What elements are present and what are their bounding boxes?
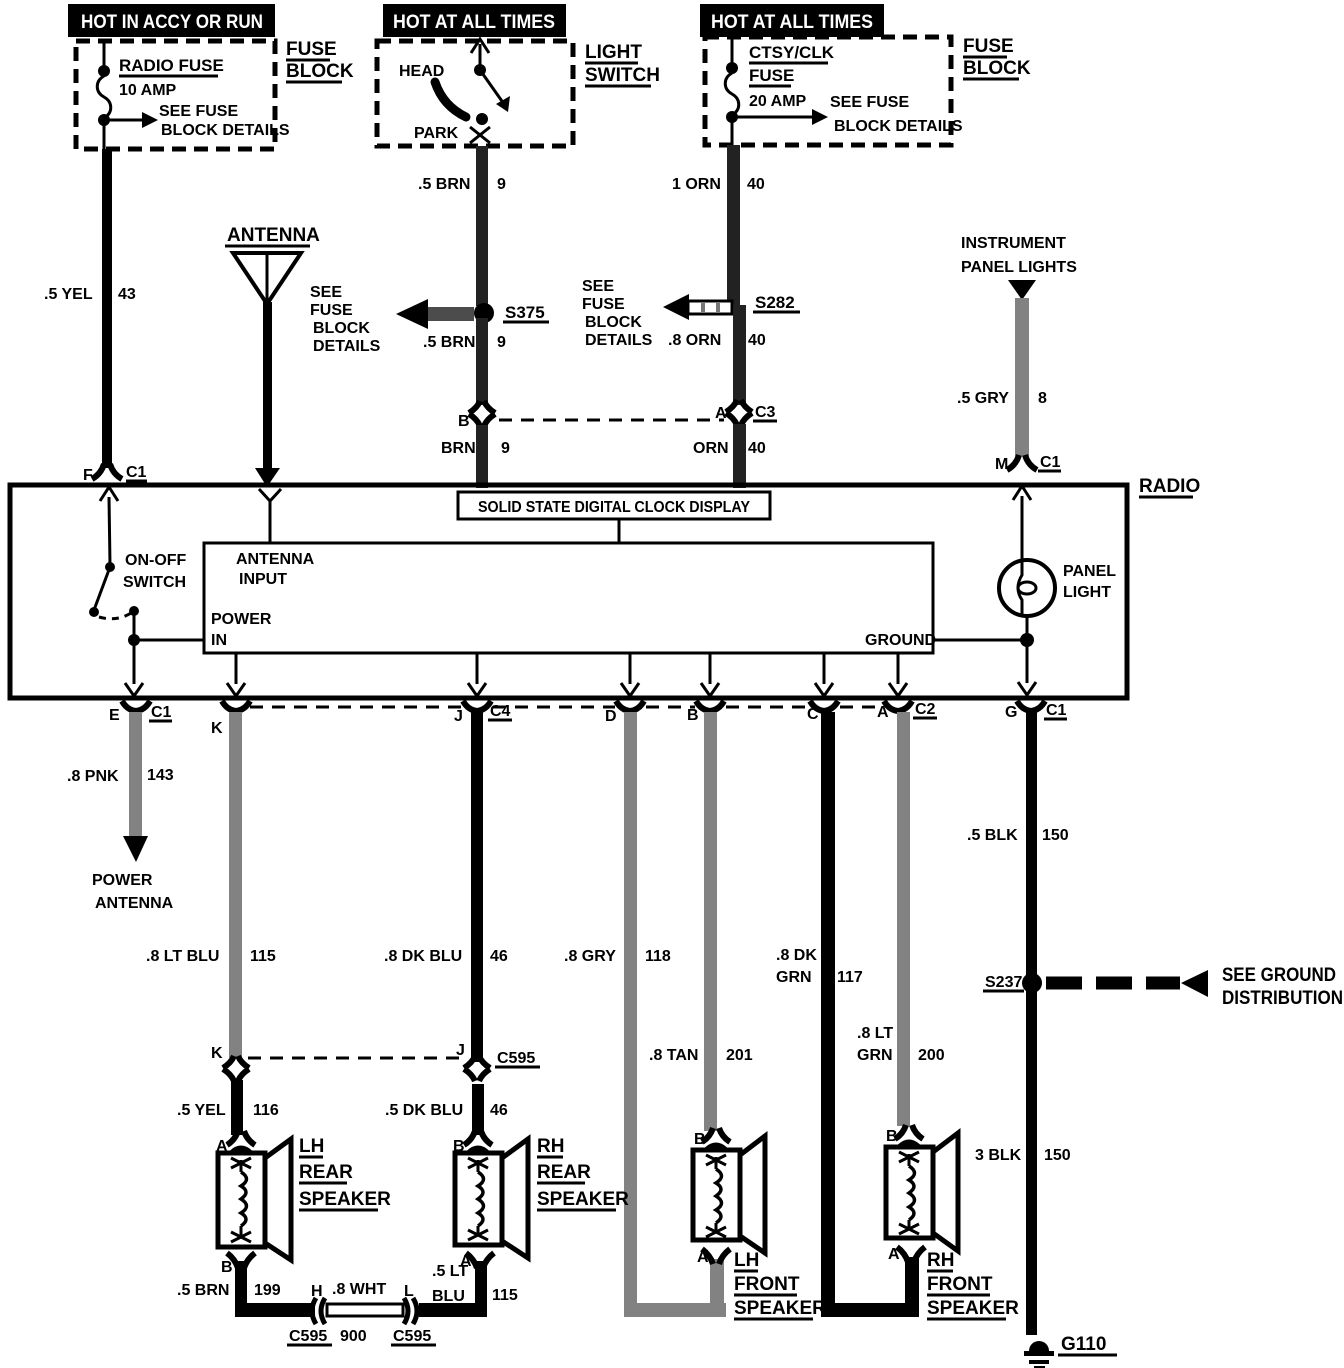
solid state digital clock display box: [458, 492, 770, 519]
svg-text:ANTENNA: ANTENNA: [236, 551, 315, 568]
arrow inner box to B: [709, 653, 712, 684]
speaker LH FRONT: [693, 1136, 765, 1253]
svg-text:.5 BRN: .5 BRN: [177, 1282, 229, 1299]
wire junction to POWER IN: [134, 639, 204, 642]
wire .8 PNK 143: [129, 712, 142, 837]
svg-text:S237: S237: [985, 974, 1022, 991]
dashed wire to ground distribution: [1046, 977, 1180, 990]
splice S375: [474, 303, 494, 323]
node (dot) bottom of radio fuse: [98, 114, 110, 126]
wire .8 GRY bottom run to LH front speaker: [624, 1303, 726, 1317]
dashed link B to A: [499, 419, 724, 422]
svg-text:DISTRIBUTION: DISTRIBUTION: [1222, 988, 1343, 1009]
wire .5 BRN 199 from LH rear B: [235, 1261, 247, 1317]
svg-text:FUSE: FUSE: [582, 296, 625, 313]
X chevron at PARK: [470, 127, 490, 143]
svg-text:.5 BLK: .5 BLK: [967, 827, 1018, 844]
svg-text:J: J: [454, 708, 463, 725]
arrow to see fuse block details (right): [732, 116, 814, 119]
svg-text:.8 ORN: .8 ORN: [668, 332, 721, 349]
speaker RH REAR: [455, 1139, 528, 1258]
wire F to on-off switch: [109, 497, 110, 565]
svg-text:C1: C1: [126, 464, 147, 481]
svg-text:IN: IN: [211, 632, 227, 649]
speaker RH FRONT: [886, 1133, 958, 1251]
node switch lower contact: [476, 113, 488, 125]
svg-text:SEE GROUND: SEE GROUND: [1222, 965, 1336, 986]
svg-text:BLOCK DETAILS: BLOCK DETAILS: [834, 118, 963, 135]
wire 3 BLK 150: [1026, 983, 1037, 1335]
wire .5 BRN 9 (upper): [476, 146, 488, 306]
svg-text:20 AMP: 20 AMP: [749, 93, 807, 110]
on-off switch blade: [94, 567, 110, 610]
dashed link K to A under radio: [250, 706, 461, 709]
wire .8 DK BLU 46: [471, 712, 483, 1062]
svg-text:.5 YEL: .5 YEL: [177, 1102, 226, 1119]
svg-text:.5 LT: .5 LT: [432, 1263, 468, 1280]
arrow inner box to K: [235, 653, 238, 684]
svg-text:C595: C595: [393, 1328, 431, 1345]
fuse CTSY/CLK element: [725, 73, 739, 115]
wire panel light to ground node: [1026, 616, 1029, 639]
speaker LH REAR: [218, 1139, 291, 1260]
wire clock display to inner box: [618, 519, 621, 543]
svg-text:SOLID STATE DIGITAL CLOCK DISP: SOLID STATE DIGITAL CLOCK DISPLAY: [478, 499, 750, 516]
banner HOT AT ALL TIMES (ctsy fuse): [700, 4, 884, 37]
node bottom of ctsy fuse: [726, 111, 738, 123]
svg-text:201: 201: [726, 1047, 753, 1064]
svg-text:C1: C1: [1040, 454, 1061, 471]
svg-text:M: M: [995, 456, 1008, 473]
svg-text:SPEAKER: SPEAKER: [734, 1298, 826, 1319]
svg-text:C4: C4: [490, 703, 511, 720]
svg-text:C1: C1: [151, 704, 172, 721]
svg-text:116: 116: [253, 1102, 279, 1119]
svg-text:.5 BRN: .5 BRN: [418, 176, 470, 193]
wire BRN 9 into radio: [476, 425, 488, 488]
svg-text:FRONT: FRONT: [734, 1274, 800, 1295]
svg-text:143: 143: [147, 767, 174, 784]
wire GROUND to node: [933, 639, 1025, 642]
chevron antenna entry: [259, 489, 281, 501]
svg-text:J: J: [456, 1042, 465, 1059]
svg-text:SPEAKER: SPEAKER: [537, 1189, 629, 1210]
svg-text:900: 900: [340, 1328, 367, 1345]
node switch pivot: [474, 64, 486, 76]
svg-text:B: B: [221, 1259, 233, 1276]
svg-text:H: H: [311, 1283, 323, 1300]
svg-text:.8 LT BLU: .8 LT BLU: [146, 948, 219, 965]
svg-text:PANEL: PANEL: [1063, 563, 1116, 580]
svg-text:FUSE: FUSE: [963, 36, 1014, 57]
wire antenna entry to inner box: [269, 500, 272, 543]
svg-text:SEE: SEE: [310, 284, 342, 301]
wire .8 DK GRN bottom run to RH front speaker: [821, 1303, 919, 1317]
svg-text:BLOCK: BLOCK: [286, 61, 354, 82]
svg-text:PANEL LIGHTS: PANEL LIGHTS: [961, 259, 1077, 276]
svg-text:BLOCK: BLOCK: [585, 314, 642, 331]
svg-text:A: A: [715, 405, 727, 422]
wire .5 GRY 8: [1015, 298, 1029, 456]
fuse RADIO FUSE element: [97, 76, 111, 118]
svg-text:46: 46: [490, 1102, 508, 1119]
arrow see fuse block details from S282: [688, 301, 732, 314]
svg-text:C595: C595: [497, 1050, 535, 1067]
svg-text:S375: S375: [505, 303, 545, 322]
wire .8 LT BLU 115: [229, 712, 242, 1058]
node (dot) top of radio fuse: [98, 65, 110, 77]
svg-text:DETAILS: DETAILS: [585, 332, 653, 349]
panel light bulb: [999, 560, 1055, 616]
svg-text:.5 GRY: .5 GRY: [957, 390, 1009, 407]
dashed switch throw: [99, 613, 131, 619]
svg-text:9: 9: [501, 440, 510, 457]
fuse block dashed box (right): [705, 37, 951, 145]
node on-off switch contact: [129, 606, 139, 616]
arrow inner box to C: [823, 653, 826, 684]
wire M to panel light: [1021, 496, 1024, 561]
svg-text:.8 TAN: .8 TAN: [649, 1047, 698, 1064]
svg-text:.8 GRY: .8 GRY: [564, 948, 616, 965]
arrow antenna into radio: [255, 468, 280, 487]
svg-text:RH: RH: [537, 1136, 564, 1157]
node on-off switch top: [105, 562, 115, 572]
banner HOT IN ACCY OR RUN: [68, 4, 275, 37]
svg-text:C595: C595: [289, 1328, 327, 1345]
fuse block dashed box (left): [76, 41, 275, 149]
svg-text:40: 40: [747, 176, 765, 193]
svg-text:F: F: [83, 467, 93, 484]
svg-text:LIGHT: LIGHT: [1063, 584, 1111, 601]
svg-text:.5 DK BLU: .5 DK BLU: [385, 1102, 463, 1119]
svg-text:200: 200: [918, 1047, 945, 1064]
svg-text:C2: C2: [915, 701, 936, 718]
svg-text:INPUT: INPUT: [239, 571, 287, 588]
svg-text:K: K: [211, 720, 223, 737]
node on-off switch blade end: [89, 607, 99, 617]
banner HOT AT ALL TIMES (light switch): [383, 4, 566, 37]
arrow inner box to A: [897, 653, 900, 684]
ground G110: [1029, 1341, 1049, 1351]
node ground junction: [1020, 633, 1034, 647]
arrow inner box to D: [629, 653, 632, 684]
svg-text:.8 DK: .8 DK: [776, 947, 817, 964]
wire .8 GRY 118: [624, 712, 637, 1308]
svg-text:ON-OFF: ON-OFF: [125, 552, 187, 569]
svg-text:ORN: ORN: [693, 440, 729, 457]
svg-text:199: 199: [254, 1282, 281, 1299]
svg-text:FUSE: FUSE: [286, 39, 337, 60]
svg-text:HOT AT ALL TIMES: HOT AT ALL TIMES: [393, 12, 555, 33]
svg-text:9: 9: [497, 176, 506, 193]
antenna lead wire: [263, 302, 272, 470]
svg-text:.8 DK BLU: .8 DK BLU: [384, 948, 462, 965]
svg-text:GRN: GRN: [776, 969, 812, 986]
svg-text:.8 LT: .8 LT: [857, 1025, 893, 1042]
wire ORN 40 into radio: [733, 424, 746, 488]
svg-text:K: K: [211, 1045, 223, 1062]
svg-text:RH: RH: [927, 1250, 954, 1271]
svg-text:GRN: GRN: [857, 1047, 893, 1064]
svg-text:C1: C1: [1046, 702, 1067, 719]
svg-text:INSTRUMENT: INSTRUMENT: [961, 235, 1066, 252]
svg-text:SEE FUSE: SEE FUSE: [830, 94, 909, 111]
wire .5 YEL 43: [102, 149, 112, 468]
svg-text:SEE FUSE: SEE FUSE: [159, 103, 238, 120]
svg-text:ANTENNA: ANTENNA: [95, 895, 174, 912]
svg-text:46: 46: [490, 948, 508, 965]
svg-text:HOT IN ACCY OR RUN: HOT IN ACCY OR RUN: [81, 12, 263, 33]
svg-text:3 BLK: 3 BLK: [975, 1147, 1022, 1164]
svg-text:117: 117: [837, 969, 863, 986]
svg-text:43: 43: [118, 286, 136, 303]
svg-text:SPEAKER: SPEAKER: [299, 1189, 391, 1210]
svg-text:B: B: [458, 413, 470, 430]
svg-text:A: A: [216, 1138, 228, 1155]
svg-text:LIGHT: LIGHT: [585, 42, 642, 63]
svg-text:B: B: [453, 1138, 465, 1155]
svg-text:LH: LH: [299, 1136, 324, 1157]
wire .5 BRN 9 (lower to connector B): [476, 318, 488, 405]
svg-text:SWITCH: SWITCH: [123, 574, 186, 591]
svg-text:POWER: POWER: [211, 611, 272, 628]
svg-text:E: E: [109, 707, 120, 724]
svg-text:150: 150: [1042, 827, 1069, 844]
svg-text:B: B: [687, 707, 699, 724]
svg-text:REAR: REAR: [537, 1162, 591, 1183]
svg-text:118: 118: [645, 948, 671, 965]
svg-text:BLU: BLU: [432, 1288, 465, 1305]
svg-text:BRN: BRN: [441, 440, 476, 457]
wire fuse to block bottom: [103, 120, 106, 149]
arrow see fuse block details from S375: [428, 307, 474, 321]
wire from banner to fuse F1: [103, 41, 106, 70]
wire .8 WHT 900: [327, 1304, 403, 1316]
wire contact down: [133, 611, 136, 640]
svg-text:G: G: [1005, 704, 1017, 721]
svg-text:POWER: POWER: [92, 872, 153, 889]
svg-text:C3: C3: [755, 404, 776, 421]
svg-text:40: 40: [748, 332, 766, 349]
wire .8 TAN 201: [704, 712, 717, 1131]
radio box: [10, 485, 1127, 698]
wire 1 ORN 40: [727, 145, 740, 305]
svg-text:GROUND: GROUND: [865, 632, 936, 649]
wire .5 BLK 150: [1026, 712, 1037, 983]
switch HEAD arc blade: [435, 82, 466, 117]
svg-text:LH: LH: [734, 1250, 759, 1271]
svg-text:9: 9: [497, 334, 506, 351]
arrow up at F inside radio: [100, 487, 118, 501]
wire .5 YEL 116: [231, 1080, 243, 1135]
svg-text:D: D: [605, 708, 617, 725]
wire ground node down to G: [1026, 640, 1029, 683]
node top of ctsy fuse: [726, 62, 738, 74]
arrow up inside light switch: [471, 39, 489, 53]
svg-text:.5 YEL: .5 YEL: [44, 286, 93, 303]
svg-text:.8 WHT: .8 WHT: [332, 1281, 386, 1298]
svg-text:115: 115: [492, 1287, 518, 1304]
svg-text:CTSY/CLK: CTSY/CLK: [749, 43, 835, 62]
wire banner to ctsy fuse: [731, 37, 734, 67]
wire junction down to E: [133, 640, 136, 684]
svg-text:REAR: REAR: [299, 1162, 353, 1183]
svg-text:150: 150: [1044, 1147, 1071, 1164]
arrow down from instrument panel lights: [1008, 280, 1036, 300]
radio inner box: [204, 543, 933, 653]
svg-text:HOT AT ALL TIMES: HOT AT ALL TIMES: [711, 12, 873, 33]
wire .5 LT BLU 115 to RH rear A: [419, 1303, 487, 1317]
svg-text:FUSE: FUSE: [310, 302, 353, 319]
wire .8 ORN 40: [733, 305, 746, 405]
svg-text:40: 40: [748, 440, 766, 457]
svg-text:ANTENNA: ANTENNA: [227, 225, 320, 246]
wire fuse to box bottom: [731, 117, 734, 145]
arrow up at M inside radio: [1013, 486, 1031, 500]
splice S237: [1022, 973, 1042, 993]
svg-text:115: 115: [250, 948, 276, 965]
svg-text:BLOCK DETAILS: BLOCK DETAILS: [161, 122, 290, 139]
svg-text:BLOCK: BLOCK: [963, 58, 1031, 79]
wire .8 LT GRN 200: [897, 712, 910, 1126]
svg-text:HEAD: HEAD: [399, 63, 444, 80]
arrow to see fuse block details (left): [104, 119, 144, 122]
svg-text:RADIO FUSE: RADIO FUSE: [119, 56, 224, 75]
svg-text:G110: G110: [1061, 1334, 1106, 1355]
svg-text:.5 BRN: .5 BRN: [423, 334, 475, 351]
svg-text:.8 PNK: .8 PNK: [67, 768, 119, 785]
svg-text:SWITCH: SWITCH: [585, 65, 660, 86]
svg-text:DETAILS: DETAILS: [313, 338, 381, 355]
svg-text:PARK: PARK: [414, 125, 459, 142]
node power junction: [128, 634, 140, 646]
svg-text:RADIO: RADIO: [1139, 476, 1200, 497]
svg-text:S282: S282: [755, 293, 795, 312]
svg-text:8: 8: [1038, 390, 1047, 407]
light switch dashed box: [377, 41, 573, 146]
wire .8 DK GRN 117: [821, 712, 835, 1308]
svg-text:FUSE: FUSE: [749, 66, 794, 85]
arrow inner box to J: [476, 653, 479, 684]
dashed link K to J lower: [248, 1057, 462, 1060]
svg-text:SEE: SEE: [582, 278, 614, 295]
svg-text:SPEAKER: SPEAKER: [927, 1298, 1019, 1319]
svg-text:BLOCK: BLOCK: [313, 320, 370, 337]
switch blade to HEAD contact: [480, 70, 504, 104]
svg-text:FRONT: FRONT: [927, 1274, 993, 1295]
svg-text:10 AMP: 10 AMP: [119, 82, 177, 99]
wire .5 DK BLU 46: [472, 1084, 484, 1135]
svg-text:1 ORN: 1 ORN: [672, 176, 721, 193]
